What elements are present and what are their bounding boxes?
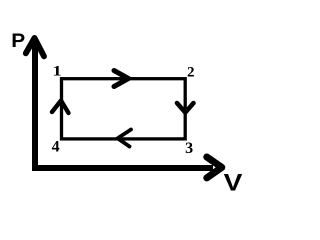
svg-text:V: V — [224, 168, 243, 196]
svg-text:2: 2 — [187, 65, 195, 81]
V axis arrowhead — [207, 157, 222, 178]
svg-text:1: 1 — [52, 62, 61, 79]
svg-text:3: 3 — [185, 140, 193, 157]
arrow 4 to 1 (upward on left edge) — [52, 101, 69, 114]
P axis arrowhead — [26, 38, 44, 56]
P-V axes (L-shaped wire) — [35, 40, 213, 168]
svg-text:4: 4 — [52, 139, 60, 156]
svg-text:P: P — [11, 31, 25, 52]
arrow 3 to 4 (leftward on bottom edge) — [118, 130, 132, 147]
cycle rectangle 1-2-3-4 — [62, 79, 186, 139]
arrow 2 to 3 (downward on right edge) — [177, 103, 194, 113]
arrow 1 to 2 (rightward on top edge) — [114, 71, 129, 87]
